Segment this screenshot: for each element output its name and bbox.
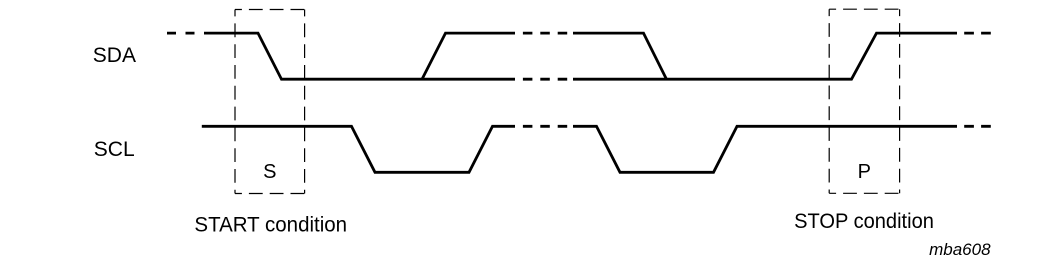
wire SDA mid break dashes low	[515, 78, 573, 81]
wire SCL trailing break dashes	[957, 125, 991, 128]
svg-text:mba608: mba608	[929, 240, 991, 259]
START condition dashed box bottom	[235, 193, 305, 195]
wire SDA high, fall into START, low level	[205, 33, 516, 79]
svg-text:P: P	[858, 161, 871, 183]
STOP condition dashed box bottom	[829, 192, 899, 194]
wire SCL high, first low pulse	[202, 126, 515, 172]
svg-text:S: S	[263, 161, 276, 183]
wire SDA rising edge and high level	[422, 33, 515, 79]
wire SCL mid break dashes	[515, 125, 573, 128]
START condition dashed box right	[304, 10, 306, 194]
STOP condition dashed box left	[828, 9, 830, 193]
STOP condition dashed box top	[829, 8, 899, 10]
wire SDA high and falling edge	[573, 33, 667, 79]
svg-text:STOP condition: STOP condition	[794, 210, 934, 233]
svg-text:SCL: SCL	[94, 138, 135, 161]
wire SDA trailing break dashes	[957, 32, 991, 35]
wire SDA leading break dashes	[167, 32, 205, 35]
STOP condition dashed box right	[899, 9, 901, 193]
START condition dashed box left	[234, 10, 236, 194]
wire SDA mid break dashes high	[515, 32, 573, 35]
svg-text:START condition: START condition	[194, 213, 347, 236]
svg-text:SDA: SDA	[93, 44, 136, 67]
wire SDA low, rise in STOP, high level	[573, 33, 957, 79]
wire SCL second low pulse and high level	[573, 126, 957, 172]
START condition dashed box top	[235, 9, 305, 11]
